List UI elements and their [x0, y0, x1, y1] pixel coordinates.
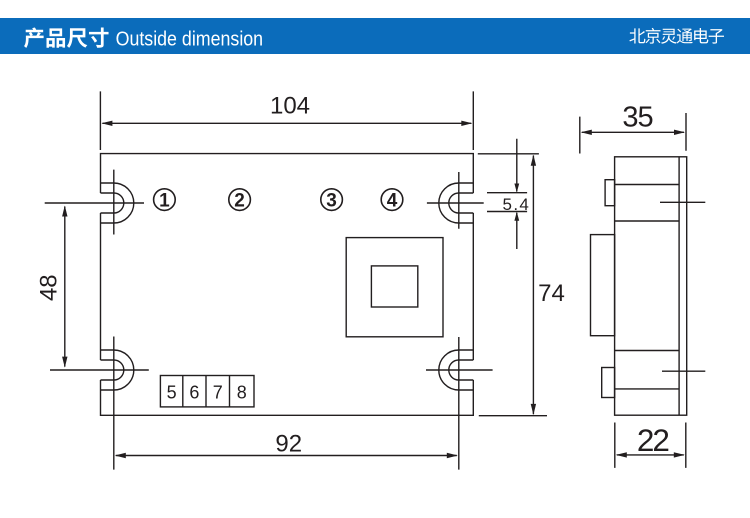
- arrowheads: [101, 121, 112, 126]
- svg-text:4: 4: [387, 190, 398, 211]
- centerline cross top-right: [427, 172, 484, 229]
- side view outline: [615, 157, 687, 415]
- svg-text:8: 8: [237, 382, 247, 402]
- dim 74 extension lines: [478, 154, 547, 416]
- svg-text:3: 3: [326, 190, 337, 211]
- side view groove lines: [615, 185, 680, 389]
- header right 北京灵通电子: [629, 28, 724, 44]
- terminal circle 1: [154, 189, 176, 211]
- side view centerlines: [660, 202, 705, 371]
- component square inner: [371, 266, 417, 307]
- centerline cross bottom-left: [50, 337, 149, 470]
- header title 产品尺寸: [24, 27, 109, 48]
- centerline cross bottom-right: [426, 337, 493, 470]
- centerline cross top-left: [45, 170, 144, 235]
- dim 5.4 arrow lines: [516, 139, 518, 249]
- dim 92 line: [116, 455, 457, 457]
- side view base plate line: [678, 157, 680, 415]
- dim 35 line: [582, 131, 684, 133]
- dim 22 line: [617, 454, 684, 456]
- svg-text:5: 5: [167, 382, 177, 402]
- svg-text:74: 74: [538, 280, 565, 307]
- svg-text:22: 22: [637, 422, 669, 458]
- dim 104 line: [102, 122, 471, 124]
- svg-text:5.4: 5.4: [503, 195, 529, 214]
- mounting ear top-left: [101, 183, 134, 223]
- body outline (front view): [101, 154, 474, 416]
- terminal block outline: [160, 376, 254, 407]
- component square outer: [346, 238, 443, 337]
- dim 22 extension lines: [615, 423, 686, 468]
- dim 35 extension lines: [580, 113, 686, 154]
- mounting ear bottom-left: [101, 350, 134, 390]
- side view top tab: [605, 180, 615, 206]
- terminal block dividers: [183, 376, 230, 407]
- dim 5.4 extension lines: [487, 193, 527, 212]
- side view heat sink block: [591, 235, 615, 336]
- mounting ear top-right: [439, 183, 473, 223]
- dim 48 line: [64, 207, 66, 367]
- side view bottom tab: [602, 368, 615, 398]
- header bar: [0, 18, 750, 54]
- terminal circle 4: [381, 189, 403, 211]
- dim 74 line: [532, 156, 534, 415]
- svg-text:92: 92: [275, 431, 302, 458]
- svg-text:2: 2: [234, 190, 245, 211]
- dim 104 extension lines: [100, 91, 473, 150]
- svg-text:1: 1: [159, 190, 170, 211]
- svg-text:7: 7: [213, 382, 223, 402]
- svg-text:35: 35: [622, 102, 652, 134]
- svg-text:Outside dimension: Outside dimension: [116, 29, 264, 51]
- mounting ear bottom-right: [439, 350, 473, 390]
- terminal circle 2: [229, 189, 251, 211]
- svg-text:104: 104: [270, 93, 310, 120]
- svg-text:6: 6: [189, 382, 199, 402]
- terminal circle 3: [321, 189, 343, 211]
- svg-text:48: 48: [35, 274, 62, 301]
